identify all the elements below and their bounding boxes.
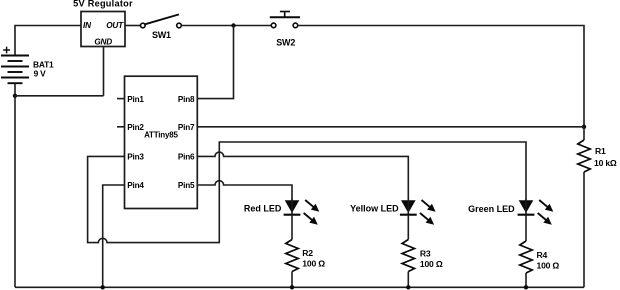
wire Pin6 to yellow LED with hop bbox=[197, 152, 408, 200]
junction R4 ground bbox=[524, 285, 528, 289]
wire green LED to R4 bbox=[525, 215, 527, 241]
svg-text:GND: GND bbox=[94, 38, 112, 47]
IC U2 ATTiny85 box bbox=[125, 76, 198, 208]
svg-text:Pin7: Pin7 bbox=[178, 123, 195, 132]
svg-text:Green LED: Green LED bbox=[468, 204, 515, 214]
wire regulator OUT to SW1 bbox=[125, 25, 140, 27]
svg-text:Pin6: Pin6 bbox=[178, 153, 195, 162]
svg-text:ATTiny85: ATTiny85 bbox=[144, 131, 178, 140]
svg-text:9 V: 9 V bbox=[34, 69, 47, 79]
svg-text:R2: R2 bbox=[302, 248, 313, 258]
wire red LED to R2 bbox=[291, 215, 293, 240]
wire regulator GND down bbox=[103, 47, 105, 96]
wire battery negative stub bbox=[14, 83, 16, 96]
pushbutton SW2 bbox=[270, 12, 300, 28]
LED D3 green bbox=[518, 199, 554, 225]
junction VCC node bbox=[231, 23, 235, 27]
svg-text:Pin5: Pin5 bbox=[178, 181, 195, 190]
wire VCC junction down to Pin8 bbox=[197, 26, 234, 99]
resistor R4 bbox=[520, 241, 532, 273]
svg-text:Yellow LED: Yellow LED bbox=[350, 204, 399, 214]
wire R1 top lead bbox=[583, 127, 585, 140]
wire ground horizontal bbox=[15, 95, 104, 97]
resistor R2 bbox=[286, 240, 298, 272]
svg-text:IN: IN bbox=[83, 21, 92, 30]
battery BAT1 bbox=[1, 47, 29, 84]
wire Pin7 to R1 node bbox=[197, 126, 584, 128]
junction Pin4 ground bbox=[101, 285, 105, 289]
junction R1 top node bbox=[582, 125, 586, 129]
svg-text:100 Ω: 100 Ω bbox=[420, 259, 443, 269]
wire Pin5 to red LED with hop bbox=[197, 181, 292, 201]
resistor R1 bbox=[578, 140, 590, 172]
svg-text:5V Regulator: 5V Regulator bbox=[73, 0, 133, 8]
svg-text:SW2: SW2 bbox=[276, 38, 295, 48]
wire left ground rail bbox=[14, 96, 16, 287]
wire Pin1 stub bbox=[117, 98, 125, 100]
svg-text:Red LED: Red LED bbox=[244, 204, 282, 214]
LED D2 yellow bbox=[400, 199, 436, 225]
wire R4 to ground bbox=[525, 273, 527, 287]
wire SW2 to top right corner and down bbox=[298, 26, 584, 127]
svg-text:100 Ω: 100 Ω bbox=[302, 258, 325, 268]
wire R3 to ground bbox=[407, 272, 409, 288]
wire Pin2 stub bbox=[117, 126, 125, 128]
svg-text:Pin3: Pin3 bbox=[127, 153, 144, 162]
svg-text:R4: R4 bbox=[537, 250, 548, 260]
switch SW1 bbox=[141, 14, 182, 27]
wire bottom ground rail bbox=[15, 286, 584, 288]
junction R2 ground bbox=[290, 285, 294, 289]
svg-text:Pin1: Pin1 bbox=[127, 95, 144, 104]
wire Pin4 to ground bbox=[103, 185, 125, 287]
wire Pin3 route to green LED with hop bbox=[88, 142, 526, 243]
regulator U1 box bbox=[81, 12, 125, 47]
LED D1 red bbox=[284, 199, 320, 225]
svg-text:OUT: OUT bbox=[106, 21, 124, 30]
svg-text:100 Ω: 100 Ω bbox=[537, 261, 560, 271]
junction battery negative bbox=[13, 94, 17, 98]
svg-text:Pin4: Pin4 bbox=[127, 181, 144, 190]
svg-text:R3: R3 bbox=[420, 249, 431, 259]
junction R3 ground bbox=[406, 285, 410, 289]
wire SW1 to SW2 bbox=[181, 25, 271, 27]
wire yellow LED to R3 bbox=[407, 215, 409, 240]
wire battery positive to regulator IN bbox=[15, 26, 81, 56]
svg-text:Pin2: Pin2 bbox=[127, 123, 144, 132]
wire R2 to ground bbox=[291, 272, 293, 288]
svg-text:Pin8: Pin8 bbox=[178, 95, 195, 104]
svg-text:R1: R1 bbox=[595, 146, 606, 156]
svg-text:10 kΩ: 10 kΩ bbox=[594, 158, 617, 168]
svg-text:SW1: SW1 bbox=[152, 30, 171, 40]
wire R1 bottom lead bbox=[583, 172, 585, 287]
resistor R3 bbox=[402, 240, 414, 272]
